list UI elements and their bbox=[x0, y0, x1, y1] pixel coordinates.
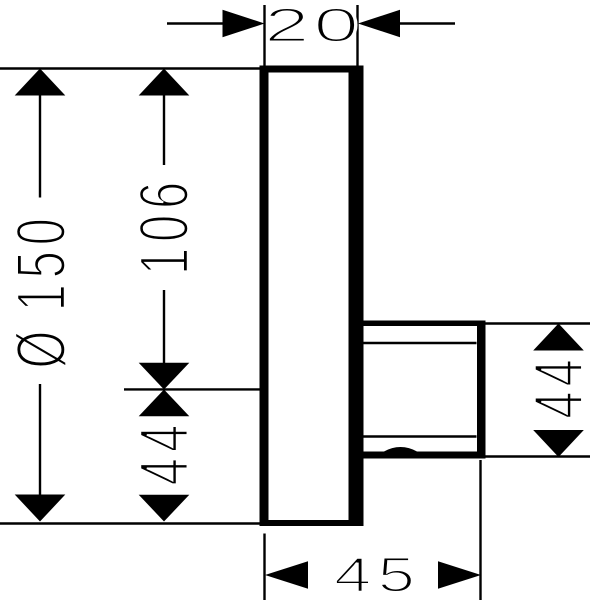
top dimension 20: right tail bbox=[399, 22, 455, 24]
valve body inner groove line lower bbox=[363, 435, 477, 437]
top dimension 20: left tail bbox=[167, 22, 224, 24]
svg-text:Ø 150: Ø 150 bbox=[1, 212, 80, 368]
extension line left of plate top edge bbox=[0, 67, 266, 69]
valve body box bbox=[357, 321, 486, 459]
top dimension 20: right arrowhead bbox=[358, 10, 400, 38]
extension line top dim right bbox=[356, 5, 358, 68]
dimension 106: lower stub bbox=[163, 290, 165, 363]
left dimension D150: top arrowhead bbox=[15, 69, 66, 96]
svg-text:106: 106 bbox=[124, 176, 203, 275]
dimension 106: upper stub bbox=[163, 94, 165, 165]
dimension 44 right: bottom arrowhead bbox=[533, 430, 584, 457]
extension line right of box bottom edge bbox=[485, 455, 590, 457]
bottom dimension 45: right arrowhead bbox=[438, 561, 481, 589]
top dimension 20: left arrowhead bbox=[223, 10, 265, 38]
extension line left of plate bottom edge bbox=[0, 522, 266, 524]
dimension 106: top arrowhead bbox=[139, 69, 190, 96]
extension line bottom dim left bbox=[263, 534, 265, 600]
faceplate side view (tall rectangle) bbox=[260, 66, 364, 527]
dimension 106: bottom arrowhead (upper half of bowtie) bbox=[139, 363, 190, 390]
valve body inner groove line upper bbox=[363, 342, 477, 344]
extension line bottom dim right bbox=[479, 460, 481, 600]
svg-text:44: 44 bbox=[519, 354, 598, 418]
extension line at valve centerline bbox=[124, 388, 262, 390]
svg-text:45: 45 bbox=[334, 548, 421, 600]
dimension 44 left: top arrowhead (lower half of bowtie) bbox=[139, 390, 190, 417]
extension line top dim left bbox=[263, 5, 265, 67]
bottom dimension 45: left arrowhead bbox=[265, 561, 308, 589]
left dimension D150: line lower stub bbox=[39, 384, 41, 496]
left dimension D150: line upper stub bbox=[39, 94, 41, 198]
svg-text:20: 20 bbox=[264, 0, 363, 52]
left dimension D150: bottom arrowhead bbox=[15, 495, 66, 522]
svg-text:44: 44 bbox=[124, 419, 203, 486]
extension line right of box top edge bbox=[485, 322, 590, 324]
dimension 44 right: top arrowhead bbox=[533, 324, 584, 351]
dimension 44 left: bottom arrowhead bbox=[139, 495, 190, 522]
